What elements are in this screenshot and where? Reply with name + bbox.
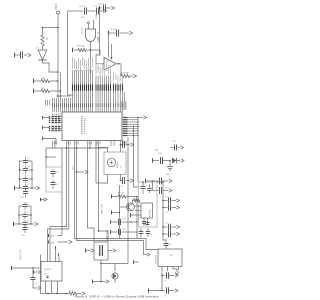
- junction dots right pins: [133, 126, 134, 127]
- svg-text:Figure 8. SDP-S – USB-to-Seria: Figure 8. SDP-S – USB-to-Serial Engine U…: [75, 295, 160, 299]
- crystal Y2 right arrow: [108, 250, 113, 252]
- net terminal row212: [111, 211, 113, 215]
- svg-text:C27: C27: [136, 234, 139, 236]
- capacitor C9: [20, 187, 24, 189]
- node VBUS terminal: [57, 11, 60, 14]
- capacitor group box: [46, 167, 62, 192]
- svg-text:R7: R7: [134, 197, 136, 199]
- svg-text:C35: C35: [164, 296, 167, 298]
- pin numbers inside IC top: [51, 113, 54, 115]
- wire second rail: [60, 72, 62, 98]
- capacitor C31 row: [162, 226, 164, 228]
- net stub small: [40, 199, 45, 201]
- LED DS1: [114, 264, 116, 272]
- gate U2 AND body: [86, 29, 96, 42]
- EEPROM U4 top stubs: [55, 248, 57, 262]
- capacitor C35 row: [161, 290, 163, 292]
- IC U1 left pin wire 3: [42, 137, 44, 141]
- svg-text:R5 2k: R5 2k: [69, 291, 74, 293]
- wire Q1 collector: [132, 200, 134, 204]
- resistor R1: [41, 35, 44, 46]
- capacitor C6: [20, 160, 24, 162]
- wire buffer output: [116, 64, 121, 76]
- svg-text:0.1: 0.1: [27, 167, 29, 169]
- capacitor C2: [84, 8, 86, 15]
- wire gate enclosure left: [68, 11, 74, 95]
- net terminal CLKIN: [11, 266, 13, 270]
- svg-text:0.1: 0.1: [27, 176, 29, 178]
- wire D1 to rail: [43, 60, 45, 63]
- wire R1 drop: [42, 28, 44, 36]
- wire bus comb B (address lines): [95, 76, 97, 113]
- wire enclosure feed dot: [142, 181, 144, 183]
- wire VBUS vertical rail: [57, 14, 59, 98]
- ladder1 left terminal: [14, 186, 16, 191]
- pin name band on combs: [72, 85, 73, 91]
- IC U1 right pins: [122, 117, 138, 119]
- svg-text:C32: C32: [165, 238, 168, 240]
- capacitor C32 row: [162, 233, 164, 235]
- capacitor C8: [20, 178, 24, 180]
- pin name band light marks: [71, 96, 74, 99]
- net terminal G2: [145, 179, 147, 184]
- wire right rail x137: [136, 197, 138, 239]
- wire C3 out: [100, 10, 104, 12]
- resistor R8 row: [72, 48, 74, 53]
- capacitor C1 with net arrow: [14, 53, 16, 58]
- wire bus comb C (control lines): [113, 83, 115, 112]
- junction dots ladder2: [18, 214, 19, 215]
- wire elbow to rail: [44, 63, 58, 72]
- svg-text:C33: C33: [169, 244, 172, 246]
- resistor R6: [118, 195, 126, 198]
- wire drop x128: [127, 137, 129, 264]
- wire buffer power pins: [111, 44, 113, 60]
- oscillator Y1 crystal circle: [107, 158, 115, 166]
- IC U6 left pins: [135, 205, 141, 207]
- IC U1 left pin group 1 labels: [52, 116, 54, 117]
- svg-text:GND: GND: [166, 174, 171, 176]
- capacitor C4 row: [99, 6, 101, 11]
- capacitor C16: [52, 180, 54, 183]
- net labels above comb A: [71, 57, 74, 69]
- IC U1 body: [62, 112, 122, 141]
- svg-text:C4 0.1: C4 0.1: [98, 4, 105, 6]
- svg-text:VDD: VDD: [96, 14, 98, 19]
- wire LED branch: [101, 263, 128, 265]
- svg-text:C31: C31: [165, 223, 168, 225]
- svg-text:C16: C16: [55, 184, 58, 186]
- capacitor C26: [149, 184, 151, 188]
- IC U1 left pin group 1 wire: [42, 116, 44, 120]
- wire right rail x163: [157, 182, 166, 240]
- wire R5 out: [77, 293, 82, 295]
- capacitor C21 row: [153, 180, 159, 182]
- svg-text:AVDD: AVDD: [97, 36, 100, 42]
- net CP3 row: [48, 241, 50, 244]
- capacitor C11: [19, 205, 23, 207]
- junction dots ladder1: [19, 169, 20, 170]
- wire crystal feed B: [99, 148, 109, 242]
- svg-text:R8 100k: R8 100k: [77, 46, 84, 48]
- net row y281: [92, 280, 94, 284]
- IC U1 left pin group 1 junctions: [49, 116, 51, 118]
- IC U5 body: [158, 249, 182, 267]
- wire CLKIN into U4: [33, 267, 41, 269]
- capacitor C33 stub: [164, 243, 169, 245]
- IC U1 left pin group 2 labels: [52, 126, 54, 127]
- wire right pin arrow: [138, 117, 143, 119]
- capacitor C24 row: [110, 230, 112, 234]
- wire gate output: [90, 42, 92, 75]
- resistor R5: [69, 292, 77, 295]
- net terminal row196: [111, 195, 113, 199]
- capacitor C7: [20, 169, 24, 171]
- resistor R2 row: [33, 79, 35, 84]
- capacitor C36 branch: [32, 268, 34, 277]
- resistor R7: [134, 199, 141, 202]
- regulator enclosure: [139, 182, 158, 227]
- capacitor C15: [52, 170, 54, 172]
- svg-text:ADP3303: ADP3303: [149, 209, 152, 217]
- wire bottom bus: [45, 293, 69, 295]
- svg-text:C20: C20: [172, 141, 175, 143]
- svg-text:24R: 24R: [41, 88, 45, 90]
- net labels above comb B: [95, 63, 98, 74]
- wire Q1 base feed: [120, 206, 126, 208]
- svg-text:C36: C36: [35, 283, 38, 285]
- svg-text:C34: C34: [164, 281, 167, 283]
- wire Y1 bottom stub right: [120, 175, 122, 181]
- pin number band above IC: [51, 103, 54, 107]
- IC U1 bottom right pins: [110, 141, 112, 147]
- IC U6 bottom stubs: [143, 218, 145, 226]
- wire x96 drop: [95, 141, 97, 184]
- wire bus comb D (USB lines): [52, 98, 54, 112]
- svg-text:VBUS: VBUS: [55, 3, 58, 10]
- svg-text:0.1: 0.1: [16, 50, 19, 52]
- svg-text:0.1: 0.1: [27, 185, 29, 187]
- svg-text:0.1: 0.1: [27, 212, 29, 214]
- IC U6 body: [141, 203, 153, 218]
- svg-text:UART_RXD: UART_RXD: [106, 229, 109, 240]
- svg-text:C29: C29: [165, 196, 168, 198]
- wire Y1 top stub left: [99, 148, 108, 153]
- svg-text:10k: 10k: [46, 37, 48, 40]
- zener D1: [42, 46, 44, 50]
- wire D2 out: [177, 160, 181, 162]
- wire R4 out: [130, 75, 134, 77]
- ladder1 right arrow: [32, 187, 36, 189]
- net terminal U6: [130, 213, 132, 217]
- left labels of comb D band: [44, 100, 47, 106]
- capacitor C27 below: [140, 228, 142, 231]
- net stub left of U5: [133, 260, 135, 264]
- svg-text:C22: C22: [165, 187, 168, 189]
- svg-text:R6 10k: R6 10k: [118, 193, 124, 195]
- capacitor C14 hanging: [24, 224, 26, 227]
- svg-text:FB1: FB1: [155, 150, 158, 152]
- diode D2: [172, 158, 176, 164]
- op-amp buffer U3: [104, 57, 116, 70]
- capacitor C22 row: [153, 190, 159, 192]
- wire x101 drop: [100, 264, 102, 282]
- IC U1 bottom pins: [52, 141, 54, 149]
- wire C4 rail drop: [99, 8, 101, 55]
- IC U5 bottom stubs: [161, 267, 163, 273]
- top ticks comb A: [72, 70, 74, 72]
- capacitor C34 row: [161, 275, 163, 277]
- svg-text:C24: C24: [122, 229, 125, 231]
- wire U4 bypass: [41, 255, 46, 294]
- svg-text:UART_TXD: UART_TXD: [101, 203, 104, 214]
- svg-text:16V: 16V: [81, 17, 85, 19]
- svg-text:NC7WZ16: NC7WZ16: [156, 255, 158, 264]
- svg-text:C17: C17: [121, 140, 124, 142]
- svg-text:C5 0.1: C5 0.1: [110, 29, 117, 31]
- crystal Y2 left terminal: [85, 249, 87, 253]
- junction dots comb D: [57, 95, 59, 97]
- capacitor C10 hanging: [25, 188, 27, 191]
- net arrow 3V3 mid: [77, 171, 85, 173]
- net CP2 row: [48, 234, 50, 237]
- svg-text:C28: C28: [150, 234, 153, 236]
- ladder2 right arrow: [31, 223, 35, 225]
- crystal Y2 frame: [94, 241, 108, 243]
- wire pair right inner: [75, 148, 159, 250]
- resistor R3 row: [33, 89, 35, 94]
- svg-text:C18: C18: [121, 186, 124, 188]
- ground below D2: [169, 161, 171, 167]
- wire junction to R1: [43, 27, 59, 29]
- svg-text:24LC64: 24LC64: [44, 269, 52, 271]
- wire pair to EEPROM outer: [48, 148, 69, 262]
- EEPROM U4 bottom stubs: [45, 281, 47, 294]
- capacitor bank C11-C13 rails: [18, 206, 20, 224]
- svg-text:0.1: 0.1: [27, 221, 29, 223]
- wire bottom bus: [46, 147, 108, 149]
- EEPROM U4 body: [41, 262, 62, 282]
- light marks above comb D band: [51, 99, 54, 102]
- svg-text:C2 0.1: C2 0.1: [79, 6, 86, 8]
- wire stub y157: [46, 156, 56, 158]
- svg-text:C1: C1: [18, 62, 20, 64]
- svg-text:C10: C10: [20, 197, 23, 199]
- wire drop x133: [134, 127, 139, 188]
- ladder2 left terminal: [13, 222, 15, 227]
- svg-text:1u: 1u: [151, 183, 153, 185]
- bottom pin labels: [53, 142, 56, 145]
- svg-text:CLKIN_3V3: CLKIN_3V3: [20, 250, 22, 260]
- wire buffer input jog: [96, 50, 104, 64]
- wire U5 rail: [161, 272, 163, 291]
- svg-text:C15: C15: [55, 172, 58, 174]
- capacitor C18: [121, 180, 123, 182]
- capacitor C3 polarized: [96, 8, 98, 15]
- capacitor C12: [19, 214, 23, 216]
- wire VDD top: [68, 10, 84, 12]
- capacitor C23 row: [110, 220, 112, 224]
- capacitor bank C6-C9 rails: [19, 161, 21, 188]
- wire x119 drop: [119, 185, 121, 238]
- wire Y2 bottom stub: [100, 260, 102, 264]
- capacitor C29 row: [162, 200, 164, 202]
- wire pair to EEPROM inner: [50, 148, 67, 262]
- capacitor C25: [142, 182, 144, 187]
- IC U1 part number: [81, 116, 82, 117]
- svg-text:24R: 24R: [41, 78, 45, 80]
- capacitor C30 row: [162, 207, 164, 209]
- net labels above comb C: [112, 72, 115, 81]
- junction dots on bottom bus: [66, 147, 67, 148]
- capacitor C5 row: [108, 31, 110, 36]
- wire box feed: [45, 148, 47, 167]
- svg-text:C23: C23: [122, 219, 125, 221]
- capacitor C17: [121, 144, 123, 146]
- capacitor C13: [19, 223, 23, 225]
- capacitor C19: [160, 157, 162, 164]
- svg-text:C30: C30: [165, 212, 168, 214]
- svg-text:24MHz: 24MHz: [117, 162, 119, 168]
- IC U1 left pin group 2 wire: [42, 126, 44, 130]
- wire bus comb A (data lines): [72, 71, 74, 112]
- net terminal G1: [152, 158, 154, 163]
- oscillator Y1 box: [104, 152, 126, 175]
- right pin labels: [123, 117, 128, 118]
- wire C5 rail drop: [108, 33, 110, 58]
- wire G2 link: [152, 181, 154, 191]
- wire pair right outer: [77, 148, 144, 255]
- wire C19 to D2: [163, 160, 170, 162]
- capacitor C28 below: [147, 228, 149, 231]
- wire C2 to C3: [87, 10, 95, 12]
- gate U2 input stubs: [88, 24, 90, 29]
- wire CP2 riser: [61, 148, 63, 236]
- svg-text:C25: C25: [145, 185, 148, 187]
- net arrow into U5: [147, 253, 150, 256]
- capacitor C20 upper: [171, 147, 174, 149]
- svg-text:R4 100R: R4 100R: [121, 73, 129, 75]
- wire crystal feed A: [88, 148, 95, 242]
- IC U1 left pin group 2 junctions: [49, 126, 51, 128]
- svg-text:C14: C14: [21, 235, 24, 237]
- wire R6 out: [126, 196, 137, 198]
- wire drop x138: [137, 118, 139, 183]
- svg-text:0.1: 0.1: [27, 158, 29, 160]
- net arrow into U4: [33, 270, 35, 274]
- svg-text:NC7SZ: NC7SZ: [82, 27, 84, 34]
- svg-text:0.1: 0.1: [27, 203, 29, 205]
- crystal Y2 plates: [99, 245, 101, 256]
- wire Y1 bottom stub left: [96, 175, 108, 184]
- resistor R4: [121, 74, 130, 77]
- label block right pins: [122, 102, 127, 110]
- wire Y1 top stub right: [120, 145, 122, 153]
- transistor Q1: [127, 203, 135, 211]
